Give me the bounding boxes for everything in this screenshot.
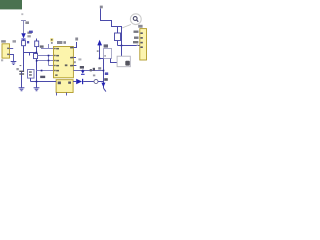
net label blue (105, 72, 108, 75)
button S1 (94, 80, 98, 84)
relay coil blob (125, 61, 130, 66)
tick left of wire (20, 65, 22, 66)
J2 net labels (134, 31, 139, 33)
power label top (100, 6, 103, 9)
D1 designator label (27, 32, 31, 34)
label right of U1 (78, 58, 81, 60)
U1 pin names right (65, 47, 73, 67)
junction on output wire (82, 70, 84, 72)
wire: branch to IC pin row (37, 70, 54, 72)
wire: emitter diagonal (104, 88, 106, 91)
wire: stub into R4 (117, 27, 119, 34)
C1 label (16, 68, 18, 70)
wire: stubs below U1B (57, 93, 67, 96)
capacitor C2 box (28, 70, 35, 79)
U1 designator label above (57, 41, 62, 44)
wire: bottom bus into U1B (31, 81, 57, 83)
label above IC pin wires (40, 45, 44, 47)
ground GND4 (left) (19, 88, 25, 91)
diode D5 (76, 79, 83, 85)
pin tick (74, 61, 76, 63)
U1 pin numbers left (54, 48, 55, 71)
relay K1 (117, 56, 130, 66)
junction on output wire (103, 70, 105, 72)
junction at D3 stem foot (99, 58, 101, 60)
title block green band (0, 0, 22, 9)
wire: drop to relay (121, 46, 123, 57)
wire: R3 bottom down to ground (36, 59, 38, 88)
wire: J1 pin 1 stub (10, 48, 14, 50)
junction dots (48, 55, 50, 57)
U1 pin numbers right (72, 47, 73, 66)
junction on vertical (36, 60, 38, 62)
wire: U1B right pin (73, 81, 76, 83)
wire: U1 output to transistor rail (73, 70, 103, 72)
wire: D1 cathode down (23, 40, 25, 41)
wire: D5 to button (83, 81, 94, 83)
label above D2 (80, 66, 84, 69)
resistor R3 (34, 54, 38, 59)
diode D2 (81, 71, 85, 75)
wire: R4 bottom to J2 (118, 41, 140, 46)
labels above buzzer wire (90, 69, 92, 71)
wire: U1 right short stub (73, 57, 76, 59)
junction (36, 81, 38, 83)
junction (121, 45, 123, 47)
net label blue left of R2 (29, 31, 33, 33)
J1 pin marks (7, 48, 9, 50)
wire: stub into R2 top (36, 39, 38, 42)
wire: R1 down (23, 46, 25, 71)
Q1 emitter arrow (101, 83, 105, 88)
wire: U1 right stub 2 (73, 65, 76, 67)
tick left of Q1 (97, 50, 99, 52)
LED D1 (21, 33, 26, 39)
wire: button to Q1 emitter line (98, 81, 104, 83)
ground GND5 (center) (34, 88, 40, 91)
transistor Q1 box (104, 49, 112, 59)
label below pin row (40, 76, 45, 78)
U1B pin mark 1 (58, 82, 61, 85)
wire: lower left vertical to ground (21, 71, 23, 87)
IC U1 (54, 47, 74, 78)
wire: Q1 to relay (111, 59, 118, 63)
wire: U1 right pin up stub (73, 42, 76, 48)
capacitor C1 plates (19, 71, 24, 75)
Q1 inner tick (104, 55, 106, 56)
U1 param yellow chip (50, 38, 53, 41)
J1 footer text (1, 59, 3, 61)
U1 pin names left (55, 48, 59, 76)
J1 label (1, 40, 6, 42)
resistor R2 (35, 41, 39, 47)
U1B pin mark 2 (68, 82, 71, 84)
J2 label above (138, 25, 142, 28)
resistor R1 (22, 41, 26, 46)
R1 label (27, 41, 29, 43)
stub net label (75, 38, 78, 41)
connector J2 (140, 29, 147, 60)
J1 net label (13, 40, 17, 42)
wire: D3 down (100, 45, 104, 58)
wire: Q1 collector-emitter rail (103, 59, 105, 89)
wire: C2 stub (30, 78, 32, 81)
Q1 label (104, 44, 108, 47)
chip sub text (51, 42, 53, 44)
wire: R2 bottom + branch (24, 47, 37, 56)
page text dot (21, 13, 23, 15)
junction (36, 52, 38, 54)
Q1 designator text (104, 78, 108, 81)
connector J1 (2, 44, 10, 58)
resistor R4 (115, 33, 121, 41)
junction on pin row (41, 70, 43, 72)
D1 value label (27, 35, 30, 37)
C2 plates inside (29, 71, 32, 75)
wire: J1 pin 2 stub (10, 55, 14, 62)
ground GND1 (11, 62, 17, 65)
wire: top power rail staircase (101, 9, 122, 46)
diode D3 (97, 40, 102, 46)
label left of rail (98, 67, 101, 69)
IC lower section U1B (56, 80, 73, 93)
U1 type label above (63, 41, 66, 44)
wire: IC pin rows left (37, 44, 54, 66)
J2 tick (137, 45, 139, 46)
magnifier icon (122, 14, 141, 28)
power port VCC1 (21, 21, 26, 34)
VCC1 label (25, 21, 29, 24)
J2 pin marks (140, 32, 142, 48)
